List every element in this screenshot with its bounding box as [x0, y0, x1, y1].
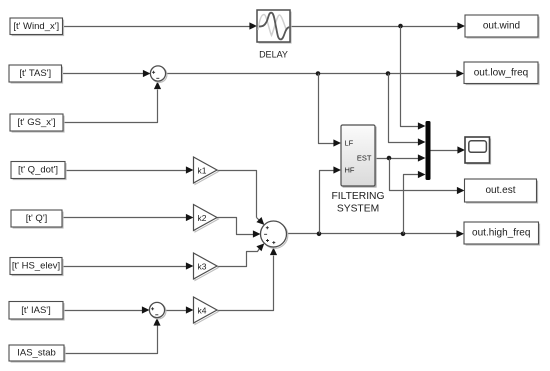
svg-text:[t' IAS']: [t' IAS']: [21, 305, 51, 316]
svg-text:out.est: out.est: [485, 185, 515, 196]
svg-text:[t' HS_elev]: [t' HS_elev]: [12, 261, 60, 272]
svg-text:SYSTEM: SYSTEM: [337, 204, 379, 215]
svg-text:HF: HF: [345, 166, 355, 175]
svg-text:[t' Q_dot']: [t' Q_dot']: [18, 165, 58, 176]
svg-text:EST: EST: [357, 154, 372, 163]
svg-text:FILTERING: FILTERING: [331, 191, 384, 202]
svg-text:k4: k4: [198, 305, 207, 315]
svg-text:[t' GS_x']: [t' GS_x']: [18, 117, 56, 128]
svg-text:LF: LF: [345, 139, 354, 148]
svg-text:[t' TAS']: [t' TAS']: [19, 68, 51, 79]
svg-text:IAS_stab: IAS_stab: [17, 348, 56, 359]
svg-text:out.low_freq: out.low_freq: [474, 67, 528, 78]
svg-text:DELAY: DELAY: [259, 49, 288, 59]
svg-text:[t' Wind_x']: [t' Wind_x']: [13, 21, 59, 32]
svg-text:out.high_freq: out.high_freq: [472, 228, 530, 239]
svg-text:k2: k2: [198, 213, 207, 223]
svg-text:out.wind: out.wind: [483, 21, 520, 32]
svg-text:k3: k3: [198, 261, 207, 271]
svg-text:[t' Q']: [t' Q']: [26, 213, 48, 224]
svg-text:k1: k1: [198, 165, 207, 175]
